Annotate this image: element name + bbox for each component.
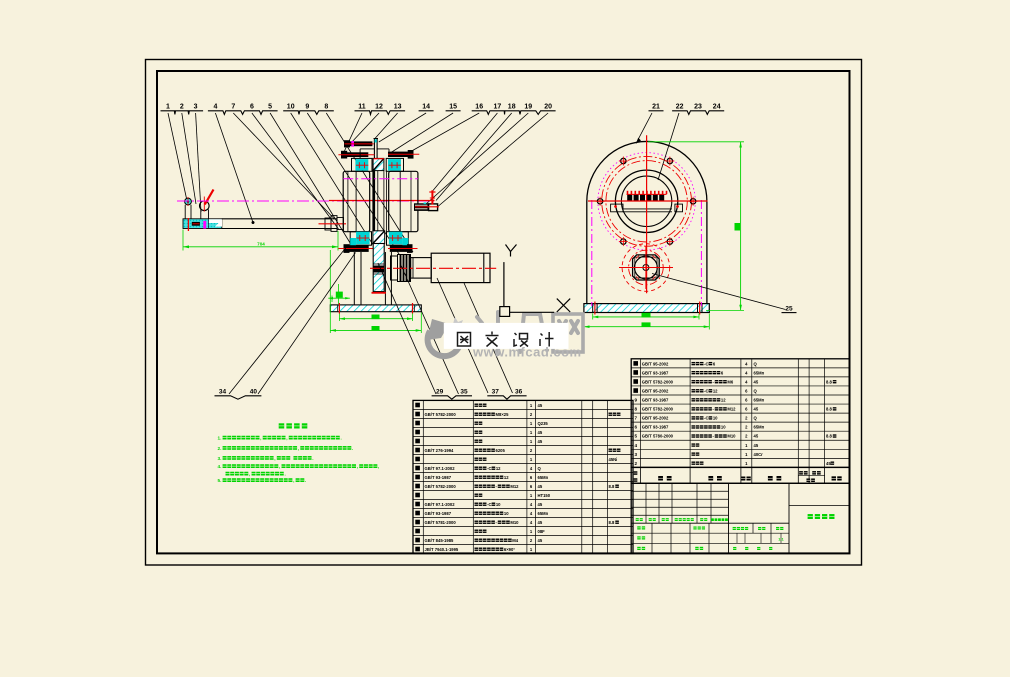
leader line 19 [426,113,528,204]
arm dim line [183,246,338,248]
ucs origin square [500,307,510,317]
svg-text:3.: 3. [218,456,222,461]
svg-text:10: 10 [721,425,726,430]
fitting black block [414,203,429,211]
svg-text:GB/T 95-2002: GB/T 95-2002 [642,416,669,421]
svg-text:65Mn: 65Mn [538,475,549,480]
svg-text:1:1: 1:1 [778,538,784,542]
red vertical centerline rv [646,135,648,293]
worm teeth red base [627,193,667,195]
svg-text:7: 7 [635,416,638,421]
svg-text:22: 22 [676,104,684,111]
top bolt B1 [345,141,372,146]
watermark title char she [514,333,528,347]
bottom bolt L red axis [338,248,373,250]
svg-text:18: 18 [508,104,516,111]
mount bolt 180deg [597,199,602,204]
base end cells [337,305,339,312]
svg-text:,: , [274,456,275,461]
svg-text:-C: -C [704,416,708,421]
base slots [592,304,594,313]
watermark white box [444,323,569,349]
title block [631,483,849,553]
svg-text:5: 5 [635,434,638,439]
svg-text:,: , [357,464,358,469]
leader line 11 [344,113,362,152]
svg-text:35: 35 [460,389,468,396]
svg-text:GB/T 5782-2000: GB/T 5782-2000 [425,412,457,417]
base dim 1 text [372,315,380,320]
svg-text:,: , [279,464,280,469]
worm hatch block top [373,158,384,170]
svg-text:21: 21 [652,104,660,111]
mount bolt 0deg [690,199,695,204]
ucs X label [557,299,570,312]
svg-text:10: 10 [496,502,501,507]
center post [373,139,375,159]
roller circle small [185,198,192,205]
left BOM grid [413,400,633,553]
svg-text:65Mn: 65Mn [754,398,765,403]
motor neck [411,258,432,279]
body magenta line [343,178,418,180]
svg-text:M10: M10 [727,434,736,439]
outer border frame [146,60,862,566]
bottom bolt L [344,245,369,252]
arm block notch [209,219,222,226]
notes title [279,423,285,428]
svg-text:40: 40 [250,389,258,396]
svg-text:2: 2 [635,461,638,466]
svg-text:4: 4 [213,104,217,111]
svg-text:GB/T 97.1-2002: GB/T 97.1-2002 [425,502,456,507]
svg-text:45: 45 [538,538,543,543]
coupling mid ring [412,258,414,279]
callout underline [419,110,434,112]
svg-text:4.: 4. [218,464,222,469]
svg-text:40Cr: 40Cr [754,452,764,457]
svg-text:45: 45 [538,502,543,507]
svg-text:2: 2 [180,104,184,111]
base dim 2 text [372,326,380,331]
leg L outer [353,252,355,305]
leader line 5 [270,113,352,246]
red horizontal centerline rv [588,200,708,202]
base dim 2 [330,329,421,331]
svg-text:6205: 6205 [496,448,506,453]
body left inner lines [347,171,349,231]
left flange blocks [325,218,331,230]
ucs vertical axis [503,262,505,307]
leader line 8 [326,113,413,252]
svg-text:45: 45 [538,403,543,408]
base dim 1 [339,318,412,320]
svg-text:65Mn: 65Mn [754,370,765,375]
svg-text:6: 6 [635,425,638,430]
housing base [584,304,709,313]
svg-text:17: 17 [494,104,502,111]
bearing TL cyan [355,159,368,171]
ucs Y label [506,245,511,252]
leader line 15 [391,113,453,153]
svg-text:45: 45 [754,434,759,439]
bottom bolt R head [407,244,413,253]
leader line 35 [400,263,459,394]
motor body [431,253,490,282]
ucs horizontal axis [510,311,555,313]
worm teeth blocks [627,194,632,201]
leader line 10 [291,113,380,256]
svg-text:11: 11 [358,104,366,111]
leader line 7 [233,113,334,219]
top bolt R2 head [408,150,414,159]
strip tabs [611,204,623,212]
svg-text:.: . [284,472,285,477]
worm teeth red comb [627,191,629,194]
svg-text:M4: M4 [512,538,518,543]
body right [389,171,418,231]
svg-text:-C: -C [487,502,491,507]
leader line 14 [379,113,426,142]
bottom bolt L head [344,244,350,253]
svg-text:8.8: 8.8 [609,520,615,525]
svg-text:M10: M10 [510,520,519,525]
worm hatch diagonal [373,158,384,170]
fitting slits [415,204,428,206]
bore circle inner [621,176,671,226]
output bore circle [635,256,658,279]
svg-text:Q235: Q235 [538,421,549,426]
bearing housing TL [352,158,373,171]
svg-text:14: 14 [422,104,430,111]
leader line 20 [439,113,549,206]
arm bar [222,218,337,220]
red bolt circle 1 [602,156,692,246]
callout underline [208,111,278,115]
svg-text:10: 10 [713,416,718,421]
arm block magenta key [203,221,206,229]
rv vert dim text [735,223,741,231]
svg-text:16: 16 [475,104,483,111]
bottom callout underline [215,396,262,399]
svg-text:12: 12 [721,398,726,403]
leader line 6 [252,113,339,229]
svg-text:,: , [260,436,261,441]
bearing BR red cross [389,237,402,239]
leg R inner [384,252,386,305]
svg-text:GB/T 95-2002: GB/T 95-2002 [642,388,669,393]
leader line 13 [375,113,398,139]
leader line 36 [464,283,513,393]
guide roller pin red [205,190,214,205]
fitting cyan tick [424,203,427,205]
top bolt L2 [343,152,369,157]
svg-text:4: 4 [635,443,638,448]
leader line 34 [229,248,346,395]
guide roller circle [200,201,210,211]
leader line 9 [307,113,399,254]
leader line 18 [436,113,512,201]
callout underline [446,110,461,112]
watermark char wang [553,314,583,352]
svg-text:.: . [340,436,341,441]
leader line 25 [652,274,786,310]
leader line 40 [258,253,356,395]
center shaft solid [372,170,375,232]
arm notch line [208,219,210,228]
worm hatch bottom diagonal [373,231,385,244]
svg-text:12: 12 [375,104,383,111]
svg-text:8.8: 8.8 [609,484,615,489]
svg-text:HT150: HT150 [538,493,551,498]
bearing BR cyan [389,232,403,245]
svg-text:65Mn: 65Mn [754,425,765,430]
svg-text:45: 45 [754,379,759,384]
roller red ticks [187,197,189,206]
arm block insert [192,222,200,226]
worm hatch block bottom [373,231,385,244]
base plate [330,305,421,312]
inner border frame [157,71,850,553]
rv dim2 [584,326,709,328]
svg-text:20: 20 [544,104,552,111]
mount bolt 240deg [621,239,626,244]
rv bottom ext line [706,309,744,311]
rv top ext line [648,141,744,143]
lower shaft red cap [372,292,386,294]
svg-text:GB/T 5780-2000: GB/T 5780-2000 [642,434,674,439]
svg-text:45: 45 [754,407,759,412]
fitting outline box [429,204,438,211]
bore circle outer [615,170,677,232]
leader 4 end dot [252,221,255,224]
svg-text:45: 45 [826,461,831,466]
svg-text:45Ni: 45Ni [609,457,618,462]
output square inner [635,257,657,278]
svg-text:M6: M6 [727,379,733,384]
svg-text:45: 45 [538,439,543,444]
svg-text:7: 7 [231,104,235,111]
bottom callout underline [487,396,526,399]
output red pitch circle [629,250,664,285]
watermark char feng [520,314,547,352]
main axis magenta [177,200,435,202]
svg-text:23: 23 [694,104,702,111]
leg R outer [390,252,392,305]
output square octagon [633,255,660,280]
base red ticks rv [594,302,596,315]
top bolt L2 red axis [338,154,374,156]
svg-text:29: 29 [436,389,444,396]
svg-text:-C: -C [487,466,491,471]
bearing TL red cross [356,164,368,166]
svg-text:8.8: 8.8 [826,434,832,439]
svg-text:M8×25: M8×25 [496,412,510,417]
magenta side lines [591,200,593,306]
svg-text:GB/T 276-1994: GB/T 276-1994 [425,448,455,453]
top bolt R2 [388,152,413,157]
rv dim1 text [642,313,651,318]
svg-text:34: 34 [219,389,227,396]
roller legs [184,205,186,219]
svg-text:8: 8 [324,104,328,111]
top bolt L2 head [341,151,347,159]
svg-text:5.: 5. [218,478,222,483]
watermark title char wen [486,332,499,347]
bearing TR cyan [388,159,401,171]
motor red centerline [370,267,496,269]
leader line 2 [182,113,196,204]
arm dim arrows [183,245,189,248]
svg-text:GB/T 93-1987: GB/T 93-1987 [425,475,452,480]
watermark title char tu [458,333,471,347]
svg-text:9: 9 [635,398,638,403]
bearing housing BR [387,232,409,246]
svg-text:,: , [298,446,299,451]
leader line 17 [433,113,497,191]
svg-text:M12: M12 [727,407,736,412]
top bolt B1 head [344,140,350,147]
svg-text:GB/T 5782-2000: GB/T 5782-2000 [642,407,674,412]
leader line 16 [409,113,479,153]
svg-text:1: 1 [166,104,170,111]
svg-text:GB/T 95-2002: GB/T 95-2002 [642,361,669,366]
svg-text:25: 25 [785,306,793,313]
side cyan L [350,238,356,249]
leader line 37 [437,278,488,393]
output center hole [643,265,649,271]
side cyan R [402,238,408,249]
svg-text:JB/T 7940.1-1995: JB/T 7940.1-1995 [425,547,459,552]
svg-text:GB/T 97.1-2002: GB/T 97.1-2002 [425,466,456,471]
svg-text:12: 12 [496,466,501,471]
mount bolt 60deg [667,158,672,163]
rv vert dim [740,142,742,311]
small green gauge [331,296,333,303]
right BOM header [631,467,849,483]
note line 5 [226,472,230,476]
red bolt circle 2 [606,161,687,242]
worm hatch red top [373,158,384,160]
svg-text:6×90°: 6×90° [504,547,515,552]
guide roller red axis [203,197,205,212]
mount bolt 120deg [621,158,626,163]
callout underline [472,111,556,115]
fitting red screw [431,190,433,204]
svg-text:-C: -C [704,388,708,393]
top bolt B1 red axis [345,143,374,145]
top bolt R2 red axis [388,153,419,155]
svg-text:GB/T 93-1987: GB/T 93-1987 [642,398,669,403]
roller center dot [187,200,189,202]
svg-text:36: 36 [515,389,523,396]
bearing BL red cross [357,237,370,239]
output red cross [619,267,673,269]
main axis red [329,200,435,202]
svg-text:15: 15 [449,104,457,111]
callout underline [355,111,406,115]
svg-text:-C: -C [704,361,708,366]
rv dim1 ext [592,314,594,320]
svg-text:.: . [352,446,353,451]
bottom callout underline [432,396,472,399]
svg-text:3: 3 [194,104,198,111]
body left [343,171,370,231]
svg-text:10: 10 [504,511,509,516]
bearing housing BL [350,232,371,246]
right BOM grid [631,359,849,468]
leader line 12 [351,113,380,144]
right BOM rows [633,361,638,366]
svg-text:8: 8 [635,407,638,412]
guide legs [200,210,202,220]
svg-text:10: 10 [287,104,295,111]
center gap lines [377,171,379,232]
bearing TR red cross [389,164,401,166]
svg-text:5: 5 [268,104,272,111]
callout underline [283,111,334,115]
fitting red axis [415,206,439,208]
lower shaft rings [373,266,384,273]
rv dim2 text [642,322,651,327]
svg-text:GB/T 93-1987: GB/T 93-1987 [642,425,669,430]
svg-text:45: 45 [754,443,759,448]
output red tip circle [622,244,670,292]
strip red dots [614,205,616,207]
svg-text:,: , [293,478,294,483]
svg-text:65Mn: 65Mn [538,511,549,516]
base dim ext [329,250,331,333]
mount bolt 300deg [667,239,672,244]
arm block cyan [183,219,222,229]
motor end line [483,253,485,282]
leader line 4 [215,113,253,223]
watermark title char ji [540,332,554,347]
watermark char mu [474,312,512,354]
svg-text:2.: 2. [218,446,222,451]
svg-text:www.mfcad.com: www.mfcad.com [472,345,582,360]
svg-text:.: . [312,456,313,461]
svg-text:GB/T 845-1985: GB/T 845-1985 [425,538,455,543]
svg-text:1.: 1. [218,436,222,441]
bottom bolt R [390,245,413,252]
leader line 1 [168,113,187,199]
left flange red axis [319,223,347,225]
base red ticks [338,303,340,314]
svg-text:45: 45 [538,520,543,525]
left BOM rows [415,403,420,408]
svg-text:,: , [286,436,287,441]
svg-text:8.8: 8.8 [826,379,832,384]
callout underline [161,111,204,115]
watermark logo swirl [428,331,461,356]
svg-text:13: 13 [394,104,402,111]
svg-text:3: 3 [635,452,638,457]
svg-text:19: 19 [524,104,532,111]
housing arch [587,141,707,303]
leader line 22 [658,113,679,180]
svg-text:GB/T 93-1987: GB/T 93-1987 [425,511,452,516]
magenta dotted circle [598,153,695,250]
svg-text:37: 37 [492,389,500,396]
leader line 21 [636,113,652,144]
leg L inner [360,252,362,305]
svg-text:704: 704 [257,241,265,246]
lower shaft hatch [373,244,384,292]
bottom bolt R red axis [388,248,418,250]
leader line 29 [378,263,436,394]
svg-text:.: . [305,478,306,483]
